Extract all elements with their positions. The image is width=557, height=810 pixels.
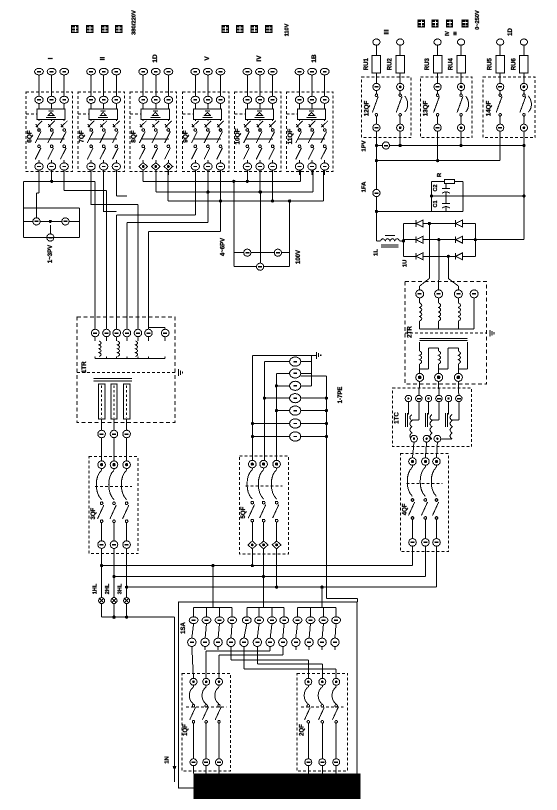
svg-text:14QF: 14QF (485, 101, 492, 117)
svg-text:1SA: 1SA (181, 621, 187, 633)
svg-text:12QF: 12QF (363, 101, 370, 117)
svg-text:RU5: RU5 (488, 58, 494, 71)
svg-text:13QF: 13QF (423, 101, 430, 117)
svg-text:1-7PE: 1-7PE (338, 387, 344, 404)
svg-text:V: V (204, 56, 211, 61)
svg-text:380/220V: 380/220V (132, 10, 138, 35)
svg-text:110V: 110V (284, 23, 290, 36)
svg-text:2TR: 2TR (407, 326, 414, 338)
svg-text:0~250V: 0~250V (475, 10, 481, 30)
svg-text:1HL: 1HL (93, 583, 99, 594)
svg-text:RU1: RU1 (364, 58, 370, 71)
svg-text:1QF: 1QF (183, 724, 189, 736)
svg-text:RU6: RU6 (511, 58, 517, 71)
svg-text:I: I (48, 57, 55, 59)
svg-text:3HL: 3HL (118, 583, 124, 594)
svg-text:10QF: 10QF (235, 128, 242, 144)
svg-text:1L: 1L (374, 249, 380, 256)
svg-text:7QF: 7QF (78, 130, 85, 143)
svg-text:1TC: 1TC (393, 412, 400, 424)
svg-text:100V: 100V (296, 250, 302, 264)
svg-text:4QF: 4QF (403, 503, 409, 515)
svg-text:2QF: 2QF (300, 724, 306, 736)
svg-text:1PV: 1PV (362, 140, 368, 151)
svg-text:R: R (437, 172, 443, 177)
svg-text:IV: IV (256, 55, 263, 62)
svg-text:C2: C2 (433, 184, 439, 191)
svg-text:IV: IV (445, 30, 451, 35)
svg-text:1D: 1D (508, 27, 514, 35)
svg-text:RU2: RU2 (388, 58, 394, 71)
svg-text:4~6PV: 4~6PV (221, 238, 227, 256)
svg-text:RU3: RU3 (425, 58, 431, 71)
svg-text:C1: C1 (433, 200, 439, 207)
svg-text:III: III (453, 32, 458, 36)
svg-text:1B: 1B (311, 54, 318, 63)
svg-text:1~3PV: 1~3PV (48, 245, 54, 263)
svg-text:9QF: 9QF (183, 130, 190, 143)
svg-text:6QF: 6QF (26, 130, 33, 143)
svg-text:1TR: 1TR (81, 361, 88, 373)
svg-text:RU4: RU4 (449, 58, 455, 71)
svg-text:2HL: 2HL (105, 583, 111, 594)
svg-text:1N: 1N (165, 756, 171, 764)
svg-text:3QF: 3QF (91, 507, 97, 519)
svg-text:III: III (385, 29, 391, 34)
svg-text:1D: 1D (152, 54, 159, 63)
svg-text:1FA: 1FA (361, 181, 367, 193)
svg-text:1U: 1U (403, 260, 409, 268)
svg-text:II: II (100, 57, 107, 61)
svg-text:5QF: 5QF (241, 506, 247, 518)
svg-text:11QF: 11QF (287, 129, 294, 145)
svg-text:8QF: 8QF (131, 130, 138, 143)
